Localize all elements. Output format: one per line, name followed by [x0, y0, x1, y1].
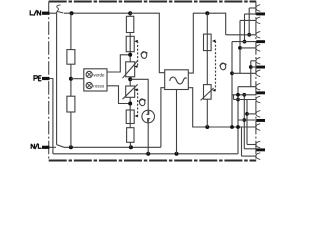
varistor V3	[204, 85, 212, 100]
thermal line D2 arrow top (varistor V2)	[134, 88, 137, 91]
plug contact forks and bars	[256, 5, 260, 160]
wire verde to fuse1 node	[107, 55, 130, 72]
stub to fork 3u	[251, 60, 256, 62]
filter top-right tap wire	[188, 13, 225, 73]
wire to fork 4l	[234, 95, 257, 100]
lamp red (rosso)	[86, 82, 92, 88]
fork 2l	[256, 45, 260, 52]
thermal line D2 arrow bottom (GDT)	[135, 115, 138, 118]
fork 6u	[256, 141, 260, 148]
varistor V2	[126, 86, 135, 97]
wire LED tap to lamp box	[71, 78, 84, 80]
right bus vertical V2 (bar1 feed)	[244, 14, 246, 42]
stub to fork 5u	[247, 113, 256, 115]
node B junction (top wire / varistor chain)	[128, 11, 132, 15]
terminal PE label	[34, 76, 41, 81]
thermal line D3 dashed	[215, 41, 217, 90]
wire to fork 4u	[238, 86, 256, 88]
theta label 3	[220, 63, 227, 71]
wire to bar 2	[232, 41, 256, 43]
contact blade bar 6	[256, 148, 265, 151]
stub to fork 6u	[247, 144, 256, 146]
wire V1/V2 node to GDT	[130, 79, 148, 110]
enclosure dash-dot border left	[48, 2, 50, 161]
right bus vertical V3 (fork1l feed)	[239, 20, 241, 73]
terminal L/N bar	[42, 12, 50, 15]
wire N/L after switch to filter tap	[64, 146, 161, 148]
stub to fork 1u	[249, 7, 256, 9]
stub to fork 6l	[242, 155, 257, 157]
resistor Rb (output chain)	[206, 13, 208, 34]
stub to fork 2l	[240, 47, 256, 49]
fork 5l	[256, 124, 260, 131]
wire rosso to fuse2 node	[107, 86, 130, 104]
sine symbol	[170, 77, 187, 84]
lamp green (verde)	[86, 71, 92, 77]
filter bottom-left tap wire	[161, 88, 165, 148]
right bus vertical V7 (bar4/bar6 link)	[243, 95, 245, 149]
contact blade bar 3	[256, 66, 265, 69]
node A junction (top wire / R-chain)	[70, 11, 74, 15]
fork 5u	[256, 111, 260, 118]
fork 1u	[256, 5, 260, 12]
wire PE drop	[49, 79, 53, 154]
junction output L / varistor chain right	[205, 11, 209, 15]
enclosure dash-dot border bottom	[49, 160, 257, 162]
stub to bar 1	[245, 13, 257, 15]
wire L/N input to switch	[49, 12, 56, 14]
right bus vertical V9 (fork6l feed)	[241, 127, 243, 156]
indicator lamp box	[84, 69, 107, 91]
enclosure dash-dot border top	[49, 1, 257, 3]
svg-text:rosso: rosso	[93, 84, 105, 89]
right bus vertical V1 (fork1u feed)	[248, 8, 250, 35]
varistor V1	[126, 62, 135, 77]
trip link wire (switch coupling vertical)	[56, 12, 58, 145]
thermal line D2 dashed	[137, 89, 139, 116]
thermal line D3 arrow bottom (varistor V3)	[212, 89, 215, 92]
junction V1/V2 to GDT	[128, 77, 132, 81]
wire to bar 4	[232, 94, 256, 96]
wire switch to node A	[64, 12, 130, 14]
thermal line D1 arrow bottom (varistor V1)	[134, 65, 137, 68]
thermal line D3 arrow top (resistor Rb)	[212, 40, 215, 43]
thermal line D1 dashed	[137, 41, 139, 65]
switch S1 thermal disconnector top (blade and curl)	[57, 11, 64, 13]
resistor R1 (upper, LED chain)	[70, 13, 72, 49]
wire top to filter input corner	[130, 13, 165, 72]
right bus vertical V4 (bar2/bar4 link)	[231, 42, 233, 127]
contact blade bar 1	[256, 13, 265, 16]
fork 4u	[256, 83, 260, 90]
wire N/L input	[49, 146, 56, 148]
resistor Ra (varistor chain top)	[129, 13, 131, 16]
stub to bar 6	[244, 148, 256, 150]
fork 3u	[256, 58, 260, 65]
terminal N/L bar	[42, 146, 50, 149]
PE bus wire bottom	[53, 153, 238, 155]
terminal N/L label	[31, 143, 41, 149]
junction output N / varistor chain right	[205, 125, 209, 129]
filter bottom-centre tap wire	[176, 90, 178, 154]
fork 3l	[256, 70, 260, 77]
stub to fork 1l	[240, 19, 256, 21]
filter box	[165, 70, 189, 90]
resistor R2 (lower, LED chain)	[67, 96, 75, 112]
fork 2u	[256, 32, 260, 39]
fork 4l	[256, 96, 260, 103]
junction N/L / varistor chain bottom	[129, 145, 133, 149]
wire to fork 3l	[232, 72, 256, 74]
terminal PE bar	[42, 77, 50, 80]
resistor R3	[129, 124, 131, 128]
fuse F2	[126, 110, 134, 124]
contact blade bar 4	[256, 91, 265, 94]
fork 1l	[256, 17, 260, 24]
contact blade bar 5	[256, 119, 265, 122]
theta label 1	[141, 51, 148, 59]
right bus vertical V8 (fork4l/fork6u link)	[246, 100, 248, 145]
junction V2/fuse2	[128, 102, 132, 106]
wire to fork 2u (from filter L out)	[226, 34, 257, 36]
right bus vertical V6 (fork4u to PE bottom)	[237, 87, 239, 154]
wire to bar 5	[238, 119, 256, 121]
terminal L/N label	[30, 10, 40, 16]
junction N/L / R-chain bottom	[69, 145, 73, 149]
thermal line D1 arrow top (fuse F1)	[134, 40, 137, 43]
stub to bar 3	[251, 66, 257, 68]
switch S2 disconnector bottom blade	[57, 145, 64, 148]
contact blade bar 2	[256, 40, 265, 43]
fork 6l	[256, 153, 260, 160]
svg-text:verde: verde	[93, 72, 105, 77]
junction LED tap	[70, 64, 72, 96]
gas discharge tube GDT	[142, 110, 155, 123]
filter bottom-right tap wire	[188, 88, 256, 127]
enclosure dash-dot border right	[255, 2, 257, 161]
junction fuse1/varistor1	[128, 53, 132, 57]
junction PE / GDT	[146, 152, 150, 156]
fuse F1 (thermal)	[126, 36, 134, 51]
right bus vertical V5 (fork3u/fork4u bracket)	[250, 61, 252, 87]
theta label 2	[139, 98, 146, 106]
junction PE / filter centre tap	[175, 152, 179, 156]
